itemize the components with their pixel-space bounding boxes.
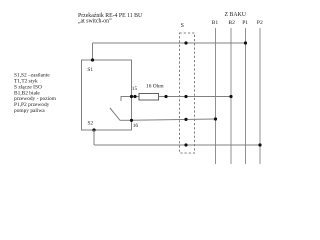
node: junction top wire to P1 [244,41,247,44]
wire: net P2 vertical [259,28,261,164]
svg-text:Z BAKU: Z BAKU [225,12,247,18]
wire: pin 16 to B1 [132,119,216,120]
node: connector pin on top wire [184,41,187,44]
wire: S2 bottom wire to P2 [94,144,260,146]
svg-text:B2: B2 [228,20,235,26]
wire: net B2 vertical [230,28,232,164]
switch fixed contact hook [121,97,132,102]
svg-text:16: 16 [133,123,139,129]
node: junction pin16 at box edge [130,119,133,122]
switch movable arm [110,108,120,120]
legend text block [14,73,57,114]
wire: net B1 vertical [215,28,217,164]
relay box outline [82,60,132,130]
wire: riser from S1 top edge to top wire [92,43,94,60]
node: connector pin on S2 wire [184,143,187,146]
node: junction pin15 at box edge [130,95,133,98]
wire: net P1 vertical [245,28,247,164]
svg-text:15: 15 [132,86,138,92]
wire: pin 15 lead to resistor [132,96,140,98]
node: junction S1 riser on box top [91,58,94,61]
connector S dashed outline [180,33,195,153]
node: junction resistor wire to B2 [229,95,232,98]
node: connector pin on resistor wire [184,95,187,98]
node: junction pin16 wire to B1 [214,117,217,120]
node: junction resistor output [164,95,167,98]
svg-text:„at switch-on”: „at switch-on” [78,19,112,25]
svg-text:S2: S2 [88,121,94,127]
svg-text:pompy paliwa: pompy paliwa [14,108,45,114]
wire: arm pivot to pin 16 [120,119,132,121]
wire: S2 drop [93,130,95,145]
svg-text:16 Ohm: 16 Ohm [146,84,164,90]
svg-text:S: S [181,23,184,29]
node: junction pin15 lead [133,95,136,98]
svg-text:P2: P2 [257,20,263,26]
svg-text:S1: S1 [87,67,93,73]
resistor R 16 Ohm body [139,94,159,101]
svg-text:P1: P1 [242,20,248,26]
node: junction S2 on box bottom [92,128,95,131]
node: connector pin on pin16 wire [184,118,187,121]
node: junction S2 wire to P2 [258,143,261,146]
wire: resistor to B2 [159,96,232,98]
svg-text:B1: B1 [212,20,219,26]
wire: top wire S1 to P1 [93,42,246,44]
